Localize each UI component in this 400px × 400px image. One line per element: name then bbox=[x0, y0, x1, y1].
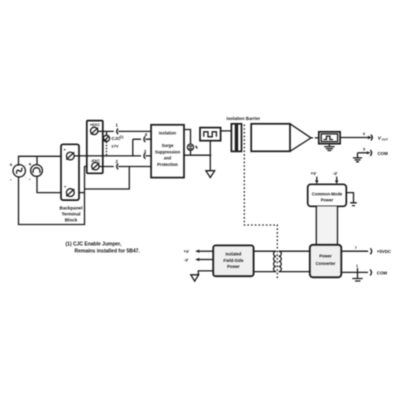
svg-text:1: 1 bbox=[116, 123, 119, 128]
svg-text:+: + bbox=[10, 163, 13, 169]
terminal T2 bbox=[64, 184, 74, 197]
connector terminal T3 bbox=[91, 127, 99, 134]
wire v1 bottom loop bbox=[19, 166, 85, 224]
wire pin3 from terminal bbox=[74, 155, 151, 157]
wire demod to filter bbox=[311, 137, 319, 139]
+V -V arrows to common mode power bbox=[311, 171, 339, 184]
svg-text:5: 5 bbox=[363, 148, 365, 152]
ground triangle field bbox=[206, 171, 215, 178]
com ground bbox=[353, 153, 362, 162]
wire lower terminal stub bbox=[74, 192, 84, 194]
svg-text:Field-Side: Field-Side bbox=[223, 258, 244, 263]
field ground stub bbox=[198, 271, 213, 275]
svg-text:and: and bbox=[164, 156, 172, 161]
svg-text:Block: Block bbox=[65, 217, 78, 222]
junction node bbox=[209, 154, 211, 156]
svg-text:Isolated: Isolated bbox=[225, 251, 241, 256]
svg-text:(1) CJC Enable Jumper,: (1) CJC Enable Jumper, bbox=[66, 242, 122, 248]
svg-text:Remains installed for 5B47.: Remains installed for 5B47. bbox=[75, 249, 141, 255]
svg-text:Surge: Surge bbox=[162, 143, 175, 148]
svg-text:Isolation Barrier: Isolation Barrier bbox=[227, 116, 261, 121]
source V1 sine bbox=[10, 162, 27, 183]
svg-text:.: . bbox=[25, 162, 26, 167]
wire chopper to ground bbox=[209, 141, 211, 171]
wire pin4 bbox=[133, 138, 151, 140]
+5vdc out bbox=[341, 250, 368, 252]
wire pin2 bbox=[99, 166, 151, 168]
chopper box bbox=[200, 128, 221, 141]
svg-text:2: 2 bbox=[116, 159, 119, 164]
svg-text:Backpanel: Backpanel bbox=[60, 205, 83, 210]
power transformer bbox=[254, 251, 310, 271]
svg-text:Terminal: Terminal bbox=[62, 211, 81, 216]
svg-text:1: 1 bbox=[356, 264, 358, 268]
svg-text:Protection: Protection bbox=[157, 162, 178, 167]
svg-text:≥7V: ≥7V bbox=[112, 143, 119, 148]
power com ground bbox=[352, 268, 362, 281]
svg-text:+V: +V bbox=[184, 249, 190, 254]
wire lower jog bbox=[85, 167, 130, 190]
svg-text:OUT: OUT bbox=[382, 138, 388, 142]
isolation barrier dashed line bbox=[244, 125, 277, 280]
svg-text:+5VDC: +5VDC bbox=[377, 249, 392, 254]
field -V stub bbox=[199, 259, 214, 261]
svg-text:COM: COM bbox=[378, 151, 389, 156]
wire v2 bottom to lower terminal bbox=[37, 176, 66, 193]
isolated field-side power block bbox=[213, 245, 253, 276]
wire block out top bbox=[184, 130, 191, 145]
pin1 chevron bbox=[117, 129, 118, 135]
svg-text:-V: -V bbox=[184, 258, 189, 263]
field +V stub bbox=[199, 250, 214, 252]
svg-text:-: - bbox=[10, 177, 12, 183]
power bus bbox=[317, 206, 337, 245]
wire chopper to transformer bbox=[221, 130, 232, 132]
wire circle to common bbox=[190, 150, 192, 155]
terminal T1 bbox=[64, 147, 75, 160]
wire stub loop to box2 bbox=[85, 165, 88, 167]
power converter block bbox=[310, 245, 342, 277]
svg-text:4: 4 bbox=[145, 132, 148, 137]
isolation surge suppression block bbox=[151, 125, 184, 178]
backpanel terminal block bbox=[60, 144, 83, 222]
output filter box bbox=[319, 132, 340, 144]
common-mode power block bbox=[308, 184, 347, 206]
svg-text:Power: Power bbox=[321, 198, 334, 203]
demodulator block bbox=[251, 124, 311, 152]
svg-text:7: 7 bbox=[355, 246, 357, 250]
connector terminal T4 bbox=[92, 163, 100, 170]
wire block out bottom bbox=[184, 154, 210, 156]
cmp ground bbox=[346, 193, 357, 206]
CJC sensor bbox=[103, 131, 123, 156]
source V2 noise bbox=[29, 162, 43, 183]
wire pin1 bbox=[98, 130, 114, 132]
module connector box bbox=[87, 121, 103, 174]
vout wire bbox=[340, 137, 368, 139]
svg-text:Common-Mode: Common-Mode bbox=[312, 191, 343, 196]
svg-text:Suppression: Suppression bbox=[155, 149, 181, 154]
svg-text:-: - bbox=[29, 177, 31, 183]
svg-text:COM: COM bbox=[377, 270, 388, 275]
wire v2 stub bbox=[36, 156, 38, 165]
svg-text:Isolation: Isolation bbox=[159, 131, 177, 136]
signal transformer bars bbox=[231, 124, 235, 152]
svg-text:.: . bbox=[25, 174, 26, 179]
wire top sources to terminal bbox=[19, 156, 67, 165]
filter ground bbox=[324, 144, 334, 151]
svg-text:Power: Power bbox=[227, 264, 240, 269]
reference circle bbox=[187, 144, 197, 150]
svg-text:Converter: Converter bbox=[316, 261, 336, 266]
svg-text:+V: +V bbox=[311, 171, 318, 176]
svg-text:+: + bbox=[29, 162, 32, 168]
svg-text:Power: Power bbox=[319, 254, 332, 259]
svg-text:-V: -V bbox=[333, 171, 338, 176]
svg-text:3: 3 bbox=[144, 149, 147, 154]
svg-text:6: 6 bbox=[363, 132, 365, 136]
svg-text:(1): (1) bbox=[120, 135, 124, 139]
com wire bbox=[358, 152, 368, 154]
svg-text:+EXC: +EXC bbox=[90, 123, 100, 127]
power com out bbox=[341, 271, 368, 273]
